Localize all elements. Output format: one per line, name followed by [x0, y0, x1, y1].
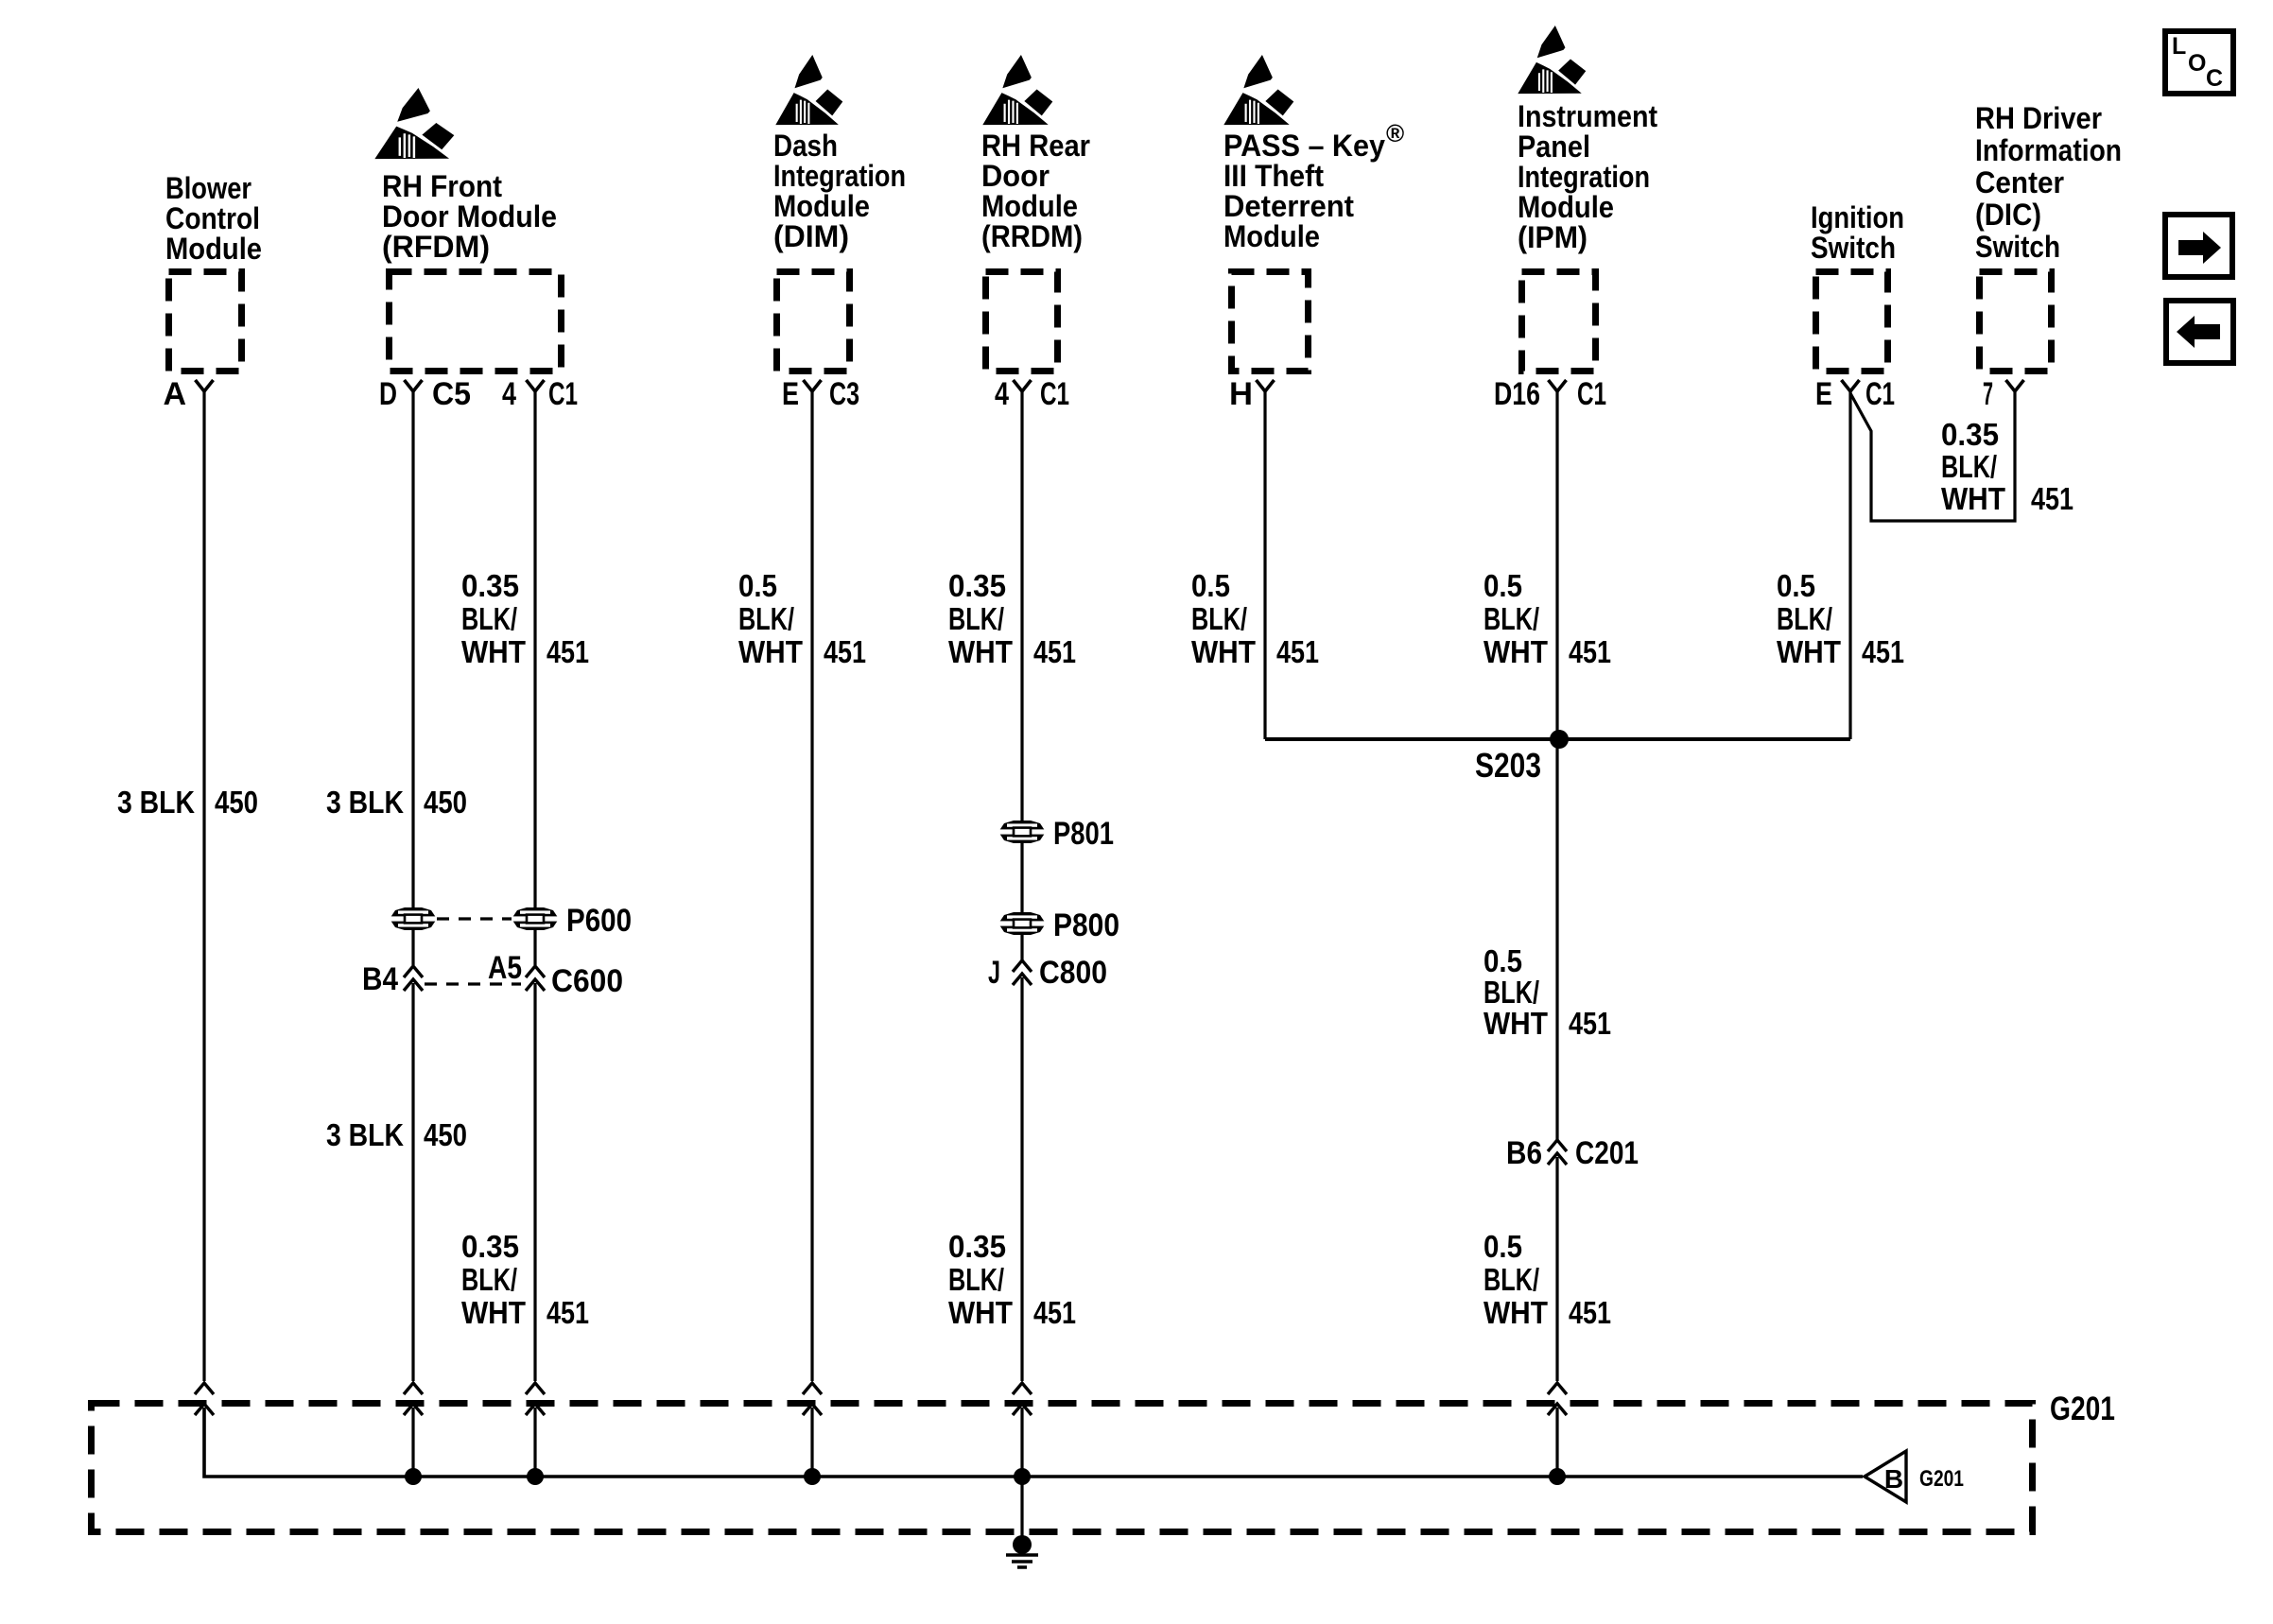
left arrow box — [2166, 301, 2233, 363]
svg-text:RH RearDoorModule(RRDM): RH RearDoorModule(RRDM) — [981, 129, 1090, 253]
wire BLK/WHT 451 from RFDM 4 to P600 — [533, 391, 536, 907]
right arrow box — [2165, 215, 2232, 277]
pin E connector fork (C1) — [1842, 380, 1860, 391]
svg-text:IgnitionSwitch: IgnitionSwitch — [1811, 200, 1904, 265]
G201 entry connector chevrons (DIM wire) — [803, 1383, 822, 1415]
wire BLK/WHT 451 from IPM D16 through S203 to C201 — [1555, 391, 1558, 1140]
svg-text:®: ® — [1386, 119, 1404, 147]
ground symbol G201 — [1013, 1535, 1032, 1554]
svg-text:0.35BLK/WHT451: 0.35BLK/WHT451 — [461, 1229, 589, 1330]
svg-text:J: J — [988, 955, 1000, 991]
ground bus junction (IPM) — [1549, 1468, 1566, 1485]
svg-text:BlowerControlModule: BlowerControlModule — [165, 171, 262, 266]
module box: IPM — [1522, 272, 1596, 371]
module box: DIM — [777, 272, 850, 371]
ground bus junction (DIM) — [804, 1468, 821, 1485]
pin E connector fork (C3) — [804, 380, 822, 391]
wire BLK/WHT 451 from RRDM 4 to P801 — [1020, 391, 1023, 821]
module box: DIC Switch — [1980, 272, 2052, 371]
svg-text:C1: C1 — [548, 376, 578, 412]
svg-text:C800: C800 — [1039, 955, 1107, 991]
svg-text:G201: G201 — [1919, 1466, 1964, 1492]
svg-text:3 BLK450: 3 BLK450 — [326, 1117, 467, 1152]
splice bus wire S203 — [1265, 737, 1850, 741]
svg-text:P800: P800 — [1053, 907, 1119, 943]
wire BLK/WHT 451 from Ignition E down to splice S203 — [1848, 391, 1851, 739]
wire BLK 450 from RFDM D to P600 — [411, 391, 414, 907]
G201 entry connector chevrons (IPM wire) — [1548, 1383, 1567, 1415]
svg-text:0.5BLK/WHT451: 0.5BLK/WHT451 — [1777, 568, 1904, 669]
wire from ground bus to ground G201 — [1020, 1477, 1023, 1537]
inline connector pad P800 — [998, 912, 1046, 935]
svg-text:PASS – KeyIII TheftDeterrentMo: PASS – KeyIII TheftDeterrentModule — [1223, 129, 1385, 253]
svg-text:P801: P801 — [1053, 816, 1114, 852]
G201 entry connector chevrons (RFDM C1 wire) — [526, 1383, 545, 1415]
splice junction S203 — [1550, 730, 1569, 749]
svg-text:0.5BLK/WHT451: 0.5BLK/WHT451 — [1484, 1229, 1611, 1330]
wire BLK/WHT 451 from DIM E down to G201 — [810, 391, 813, 1381]
wire from G201 entry to ground bus (RFDM D) — [411, 1408, 414, 1477]
svg-text:RH DriverInformationCenter(DIC: RH DriverInformationCenter(DIC)Switch — [1975, 101, 2122, 264]
wire BLK 450 from C600 down to G201 (left) — [411, 983, 414, 1381]
dashed link between C600 chevrons — [425, 982, 521, 985]
svg-text:4: 4 — [502, 376, 516, 412]
pin D connector fork (C5) — [405, 380, 423, 391]
pin H connector fork — [1257, 380, 1275, 391]
svg-text:S203: S203 — [1475, 746, 1541, 785]
inline connector C201 chevrons — [1548, 1140, 1567, 1165]
module box: RFDM — [390, 272, 562, 371]
wire: Blower ground leg and ground bus to terminal B — [204, 1408, 1863, 1477]
svg-text:7: 7 — [1983, 376, 1993, 412]
svg-text:C1: C1 — [1577, 376, 1606, 412]
svg-text:0.35BLK/WHT451: 0.35BLK/WHT451 — [948, 1229, 1076, 1330]
wire from P800 to C800 — [1020, 935, 1023, 960]
ESD sensitive device symbol (PASS-Key III) — [1223, 55, 1293, 125]
inline connector C800 chevrons — [1013, 960, 1032, 985]
wire from G201 entry to ground bus (RRDM) — [1020, 1408, 1023, 1477]
inline connector C600 chevrons (A5) — [526, 966, 545, 991]
module box: Blower Control Module — [169, 272, 242, 371]
svg-text:A5: A5 — [488, 950, 522, 986]
wire BLK 450 from Blower A down to G201 — [202, 391, 205, 1381]
svg-text:0.35BLK/WHT451: 0.35BLK/WHT451 — [461, 568, 589, 669]
svg-text:0.5BLK/WHT451: 0.5BLK/WHT451 — [738, 568, 866, 669]
G201 ground dashed boundary box — [92, 1404, 2033, 1532]
svg-text:B6: B6 — [1506, 1135, 1542, 1171]
svg-text:RH FrontDoor Module(RFDM): RH FrontDoor Module(RFDM) — [382, 169, 557, 264]
pin 7 connector fork — [2006, 380, 2024, 391]
pin D16 connector fork (C1) — [1549, 380, 1567, 391]
ESD sensitive device symbol (IPM) — [1518, 26, 1586, 94]
module box: Ignition Switch — [1816, 272, 1888, 371]
svg-text:C1: C1 — [1040, 376, 1069, 412]
svg-text:D16: D16 — [1494, 376, 1540, 412]
svg-text:C5: C5 — [432, 376, 471, 412]
svg-text:C201: C201 — [1575, 1135, 1639, 1171]
wire from G201 entry to ground bus (RFDM C1) — [533, 1408, 536, 1477]
inline connector pad P600 (right half) — [512, 907, 559, 930]
ground bus junction (RRDM) — [1014, 1468, 1031, 1485]
ground terminal B (triangle) — [1865, 1451, 1906, 1502]
wire between P801 and P800 — [1020, 843, 1023, 912]
svg-text:0.35BLK/WHT451: 0.35BLK/WHT451 — [948, 568, 1076, 669]
svg-text:InstrumentPanelIntegrationModu: InstrumentPanelIntegrationModule(IPM) — [1518, 99, 1657, 254]
G201 entry connector chevrons (RFDM D wire) — [404, 1383, 423, 1415]
svg-text:A: A — [163, 376, 186, 412]
svg-text:3 BLK450: 3 BLK450 — [326, 785, 467, 820]
svg-text:B4: B4 — [362, 961, 398, 997]
inline connector C600 chevrons (B4) — [404, 966, 423, 991]
wire BLK/WHT 451 from C800 down to G201 — [1020, 977, 1023, 1381]
svg-text:G201: G201 — [2050, 1391, 2115, 1427]
svg-text:C600: C600 — [551, 963, 623, 999]
svg-text:P600: P600 — [566, 903, 632, 939]
svg-text:B: B — [1884, 1464, 1903, 1494]
svg-text:D: D — [379, 376, 397, 412]
wire BLK/WHT 451 from C600 down to G201 (right) — [533, 983, 536, 1381]
G201 entry connector chevrons (RRDM wire) — [1013, 1383, 1032, 1415]
svg-text:H: H — [1229, 376, 1253, 412]
svg-text:C3: C3 — [829, 376, 859, 412]
ground bus junction (RFDM C1) — [527, 1468, 544, 1485]
svg-text:C1: C1 — [1865, 376, 1895, 412]
dashed link between P600 pads — [437, 917, 512, 920]
LOC reference box — [2165, 31, 2233, 94]
svg-text:DashIntegrationModule(DIM): DashIntegrationModule(DIM) — [773, 129, 906, 253]
wire from P600 to C600 (right) — [533, 930, 536, 965]
pin 4 connector fork (C1) — [1014, 380, 1032, 391]
svg-text:0.35BLK/WHT451: 0.35BLK/WHT451 — [1941, 417, 2073, 516]
pin 4 connector fork (C1) — [527, 380, 545, 391]
pin A connector fork — [196, 380, 214, 391]
wire BLK/WHT 451 from C201 down to G201 — [1555, 1157, 1558, 1381]
svg-text:0.5BLK/WHT451: 0.5BLK/WHT451 — [1484, 568, 1611, 669]
svg-text:0.5BLK/WHT451: 0.5BLK/WHT451 — [1484, 943, 1611, 1041]
svg-text:E: E — [1815, 376, 1832, 412]
inline connector pad P801 — [998, 821, 1046, 843]
wire from G201 entry to ground bus (IPM) — [1555, 1408, 1558, 1477]
ESD sensitive device symbol (RFDM) — [374, 88, 454, 159]
G201 entry connector chevrons (Blower wire) — [195, 1383, 214, 1415]
module box: RRDM — [986, 272, 1058, 371]
svg-text:3 BLK450: 3 BLK450 — [117, 785, 258, 820]
svg-text:4: 4 — [995, 376, 1009, 412]
svg-text:LOC: LOC — [2172, 33, 2223, 92]
wire BLK/WHT 451 from PASS-Key H down to splice S203 — [1263, 391, 1266, 739]
wire 0.35 BLK/WHT 451 from Ignition C1 to DIC pin 7 — [1850, 392, 2015, 521]
ground bus junction (RFDM D) — [405, 1468, 422, 1485]
module box: PASS-Key III — [1232, 272, 1309, 371]
svg-text:0.5BLK/WHT451: 0.5BLK/WHT451 — [1191, 568, 1319, 669]
ESD sensitive device symbol (RRDM) — [982, 55, 1052, 125]
wire from P600 to C600 (left) — [411, 930, 414, 965]
wire from G201 entry to ground bus (DIM) — [810, 1408, 813, 1477]
svg-text:E: E — [782, 376, 799, 412]
inline connector pad P600 (left half) — [390, 907, 437, 930]
ESD sensitive device symbol (DIM) — [775, 55, 842, 125]
